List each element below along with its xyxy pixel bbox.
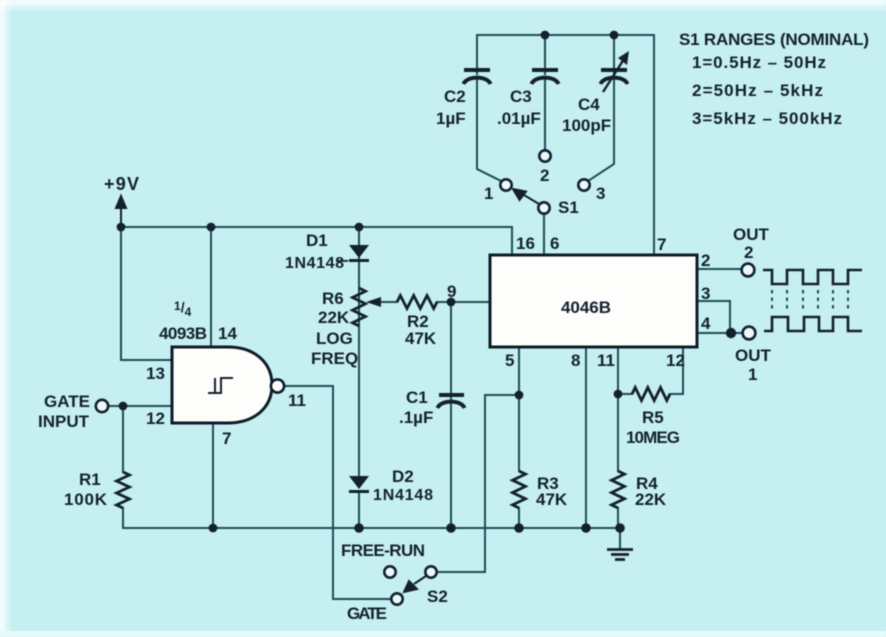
switch S2 contact (to pin5) — [425, 566, 436, 577]
svg-text:12: 12 — [146, 409, 165, 428]
svg-text:+9V: +9V — [104, 174, 139, 194]
svg-text:LOG: LOG — [316, 329, 353, 348]
node pin4 junction — [726, 328, 736, 338]
resistor R4 — [612, 471, 625, 508]
wire C4 lead to S1 contact 3 — [588, 35, 614, 181]
svg-text:R1: R1 — [79, 470, 101, 489]
waveform OUT1 trace — [764, 317, 862, 331]
wire R1 branch — [122, 406, 124, 528]
capacitor C1 — [438, 395, 465, 408]
svg-text:22K: 22K — [635, 490, 667, 509]
svg-text:1µF: 1µF — [436, 109, 466, 128]
capacitor C2 — [464, 70, 491, 84]
wire pin 9 — [451, 301, 490, 303]
node: D1 junction — [355, 223, 364, 232]
svg-text:C2: C2 — [444, 87, 466, 106]
svg-text:C4: C4 — [578, 95, 600, 114]
svg-text:GATE: GATE — [347, 604, 387, 623]
waveform OUT2 trace — [763, 270, 862, 284]
wire pin 11 branch — [617, 347, 619, 528]
switch S2 common GATE — [391, 593, 402, 604]
svg-text:FREE-RUN: FREE-RUN — [341, 541, 425, 560]
svg-text:2: 2 — [701, 251, 710, 270]
svg-text:10MEG: 10MEG — [626, 428, 680, 447]
resistor R5 — [632, 388, 670, 401]
svg-text:OUT: OUT — [733, 225, 770, 244]
svg-text:INPUT: INPUT — [38, 412, 90, 431]
switch S1 contact 2 — [539, 150, 550, 161]
node R1 junction — [119, 402, 128, 411]
waveform phase dashed lines — [772, 290, 848, 312]
resistor R1 — [117, 472, 130, 508]
wire pin 5 branch — [518, 347, 520, 528]
gate bubble — [271, 379, 284, 392]
svg-text:1: 1 — [748, 365, 757, 384]
svg-text:FREQ: FREQ — [311, 349, 358, 368]
svg-text:3: 3 — [596, 184, 605, 203]
svg-text:R5: R5 — [642, 408, 664, 427]
wire pin 8 — [585, 347, 587, 528]
node pin 9 junction — [447, 298, 456, 307]
node: +9V rail junction — [117, 223, 126, 232]
switch S1 contact 3 — [578, 179, 589, 190]
svg-text:1: 1 — [484, 184, 493, 203]
svg-text:1N4148: 1N4148 — [373, 487, 433, 504]
wire R5 to pin 12 — [618, 347, 683, 394]
potentiometer R6 — [353, 288, 366, 326]
wire pin 7 of 4046B — [653, 35, 655, 255]
wire R6 wiper to R2 — [380, 301, 397, 303]
svg-text:S1 RANGES (NOMINAL): S1 RANGES (NOMINAL) — [679, 30, 869, 49]
wire pin 4 to OUT 1 — [697, 332, 742, 334]
switch S1 common — [538, 202, 549, 213]
svg-text:4046B: 4046B — [561, 298, 611, 317]
NAND gate U2 4093B — [172, 347, 272, 423]
terminal OUT 1 — [743, 327, 756, 340]
wire D1/R6/D2 vertical — [358, 227, 360, 528]
node pin11/R5 junction — [614, 390, 623, 399]
node: pin14 junction — [207, 223, 216, 232]
svg-text:47K: 47K — [405, 329, 437, 348]
svg-text:7: 7 — [222, 429, 231, 448]
node pin8 / rail junction — [581, 523, 591, 533]
diode D2 — [349, 476, 369, 493]
svg-text:22K: 22K — [318, 308, 350, 327]
switch S2 contact FREE-RUN — [384, 566, 395, 577]
svg-text:7: 7 — [657, 235, 666, 254]
wire gate input pin 12 — [108, 405, 172, 407]
svg-text:GATE: GATE — [44, 392, 90, 411]
svg-text:C1: C1 — [406, 388, 428, 407]
svg-text:3: 3 — [701, 284, 710, 303]
svg-text:8: 8 — [571, 351, 580, 370]
svg-text:47K: 47K — [536, 490, 568, 509]
wire capacitor top rail — [477, 34, 654, 36]
svg-text:4: 4 — [701, 314, 711, 333]
IC U1 4046B — [490, 255, 697, 347]
wire pin 2 to OUT 2 — [697, 268, 741, 270]
svg-text:11: 11 — [597, 351, 615, 370]
terminal OUT 2 — [742, 264, 755, 277]
svg-text:OUT: OUT — [735, 346, 772, 365]
wire +9V to pin 13 — [121, 227, 172, 360]
svg-text:D2: D2 — [392, 467, 414, 486]
wire C2 lead to S1 contact 1 — [477, 35, 503, 182]
svg-text:3=5kHz – 500kHz: 3=5kHz – 500kHz — [692, 109, 842, 128]
svg-text:S2: S2 — [427, 587, 448, 606]
switch S2 wiper arrow — [404, 576, 426, 592]
wire ground stub — [619, 528, 621, 549]
svg-text:5: 5 — [505, 351, 514, 370]
node R3 / rail junction — [514, 523, 524, 533]
wire pin 5 to S2 contact — [437, 395, 519, 572]
svg-text:2=50Hz – 5kHz: 2=50Hz – 5kHz — [692, 81, 823, 100]
resistor R3 — [513, 471, 526, 508]
svg-text:1N4148: 1N4148 — [285, 255, 344, 272]
resistor R2 — [397, 296, 437, 309]
svg-text:100pF: 100pF — [562, 116, 611, 135]
svg-text:2: 2 — [744, 243, 753, 262]
svg-text:S1: S1 — [558, 198, 579, 217]
wire gate pin 7 — [212, 423, 214, 528]
svg-text:12: 12 — [666, 351, 685, 370]
switch S1 wiper arrow — [513, 189, 539, 204]
wire R2 to node pin9 — [437, 301, 451, 303]
terminal GATE INPUT — [96, 400, 108, 412]
node R4 / rail junction — [615, 523, 625, 533]
svg-text:R6: R6 — [322, 289, 344, 308]
node pin5/S2 junction — [515, 391, 524, 400]
svg-text:6: 6 — [550, 234, 559, 253]
wire S1 common to pin 6 — [543, 214, 545, 255]
capacitor C3 — [532, 70, 559, 84]
switch S1 contact 1 — [500, 179, 511, 190]
svg-text:4093B: 4093B — [159, 324, 207, 343]
svg-text:11: 11 — [288, 391, 306, 410]
schmitt trigger symbol — [208, 378, 233, 393]
R6 wiper arrow — [366, 297, 381, 307]
node D2 / rail junction — [354, 523, 364, 533]
svg-text:.1µF: .1µF — [399, 408, 433, 427]
wire C1 branch — [450, 302, 452, 528]
ground — [607, 550, 633, 560]
svg-text:2: 2 — [540, 166, 549, 185]
svg-text:9: 9 — [447, 282, 456, 301]
wire gate output pin 11 to S2 gate contact — [284, 386, 391, 599]
wire +9V rail — [121, 227, 512, 255]
svg-text:16: 16 — [516, 234, 535, 253]
wire bottom rail — [123, 527, 620, 529]
node C1 / rail junction — [446, 523, 456, 533]
node C3 top junction — [541, 31, 550, 40]
node C4 top junction — [610, 31, 619, 40]
variable capacitor C4 — [601, 51, 630, 92]
+9V arrow — [116, 196, 126, 227]
svg-text:C3: C3 — [510, 87, 532, 106]
svg-text:D1: D1 — [306, 231, 328, 250]
wire pin 14 — [210, 227, 212, 347]
wire pin 3 — [697, 301, 730, 333]
svg-text:100K: 100K — [64, 490, 108, 509]
diode D1 — [336, 245, 369, 262]
node gate pin7 / rail junction — [209, 524, 218, 533]
wire C3 lead to S1 contact 2 — [544, 35, 546, 150]
svg-text:.01µF: .01µF — [497, 109, 541, 128]
svg-text:1=0.5Hz – 50Hz: 1=0.5Hz – 50Hz — [692, 53, 826, 72]
svg-text:13: 13 — [146, 364, 165, 383]
svg-text:14: 14 — [218, 324, 237, 343]
